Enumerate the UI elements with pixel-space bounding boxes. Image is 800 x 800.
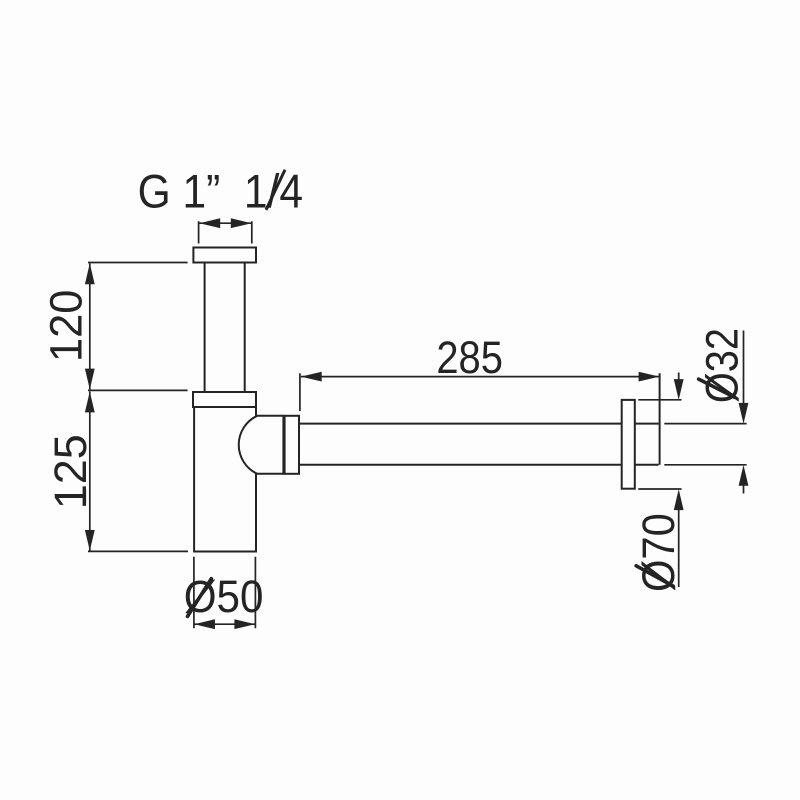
svg-text:Ø50: Ø50 bbox=[184, 573, 264, 623]
svg-text:120: 120 bbox=[42, 290, 92, 362]
svg-text:285: 285 bbox=[436, 333, 503, 384]
svg-text:Ø32: Ø32 bbox=[697, 328, 747, 403]
svg-text:125: 125 bbox=[45, 434, 96, 509]
svg-text:Ø70: Ø70 bbox=[635, 513, 685, 592]
svg-text:G 1” 1/4: G 1” 1/4 bbox=[138, 165, 303, 217]
